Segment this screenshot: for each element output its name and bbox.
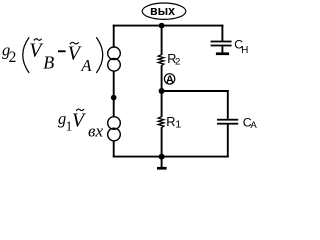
svg-text:H: H — [241, 45, 248, 56]
svg-text:вх: вх — [88, 122, 103, 141]
svg-text:2: 2 — [175, 57, 180, 68]
svg-text:B: B — [43, 53, 54, 73]
svg-text:вых: вых — [150, 3, 176, 18]
svg-text:1: 1 — [175, 120, 181, 131]
svg-text:2: 2 — [9, 49, 17, 66]
svg-text:R: R — [166, 115, 175, 129]
svg-text:A: A — [250, 120, 257, 131]
svg-text:A: A — [166, 74, 174, 86]
svg-text:A: A — [80, 56, 92, 75]
